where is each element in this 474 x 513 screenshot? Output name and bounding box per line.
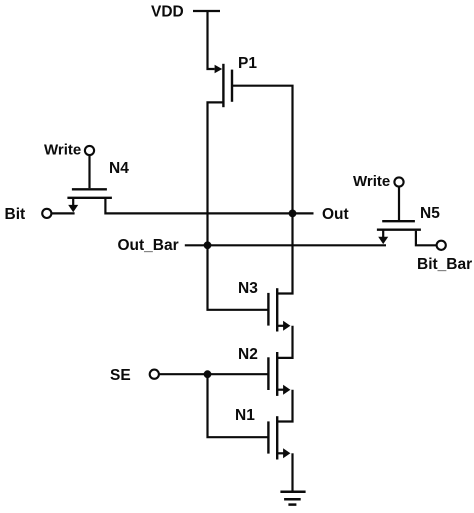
transistor N1 <box>268 416 277 459</box>
svg-text:VDD: VDD <box>151 4 184 21</box>
wire Out_Bar node to N5 source <box>185 244 386 246</box>
wire SE node to N1 gate <box>208 374 269 437</box>
wire Bit to N4 source <box>52 212 75 214</box>
ground <box>280 492 305 505</box>
N1 source arrow <box>277 448 290 458</box>
svg-text:Write: Write <box>44 142 81 159</box>
svg-text:SE: SE <box>110 367 131 384</box>
wire VDD to P1 source <box>208 11 215 69</box>
transistor P1 <box>223 64 232 107</box>
N4 source arrow <box>68 198 78 212</box>
transistor N4 <box>67 189 112 198</box>
terminal Write (right) <box>394 177 403 186</box>
svg-text:N4: N4 <box>109 160 129 177</box>
transistor N2 <box>268 352 277 396</box>
svg-text:P1: P1 <box>238 55 257 72</box>
junction dot Out <box>289 210 297 218</box>
svg-text:Out: Out <box>322 206 349 223</box>
N2 source arrow <box>277 385 290 395</box>
wire P1 drain to Out_Bar node and N3 gate <box>208 102 269 309</box>
terminal SE <box>150 370 159 379</box>
svg-text:Bit: Bit <box>5 206 26 223</box>
wire N4 drain to Out node <box>105 199 313 214</box>
wire N3 source to N2 drain <box>277 326 292 358</box>
junction dot Out_Bar <box>204 241 212 249</box>
terminal Write (left) <box>85 146 94 155</box>
svg-text:Out_Bar: Out_Bar <box>118 237 179 254</box>
wire N2 source to N1 drain <box>277 390 292 422</box>
wire Write to N5 gate <box>398 187 400 220</box>
svg-text:Bit_Bar: Bit_Bar <box>417 256 472 273</box>
wire SE to N2 gate <box>160 373 269 375</box>
terminal Bit <box>42 209 51 218</box>
wire N1 source to ground <box>291 453 293 491</box>
transistor N5 <box>377 221 421 230</box>
wire Write to N4 gate <box>88 156 90 189</box>
VDD power rail <box>193 10 220 12</box>
transistor N3 <box>268 288 277 331</box>
wire P1 gate to Out node and N3 drain <box>232 86 293 294</box>
junction dot SE node <box>204 370 212 378</box>
wire N5 drain to Bit_Bar <box>416 231 436 246</box>
svg-text:N1: N1 <box>235 407 255 424</box>
terminal Bit_Bar <box>437 241 446 250</box>
svg-text:N5: N5 <box>420 205 440 222</box>
N3 source arrow <box>277 321 290 331</box>
N5 source arrow <box>378 230 388 244</box>
P1 source arrow <box>215 65 223 73</box>
svg-text:N2: N2 <box>238 346 258 363</box>
svg-text:Write: Write <box>353 173 390 190</box>
svg-text:N3: N3 <box>238 280 258 297</box>
